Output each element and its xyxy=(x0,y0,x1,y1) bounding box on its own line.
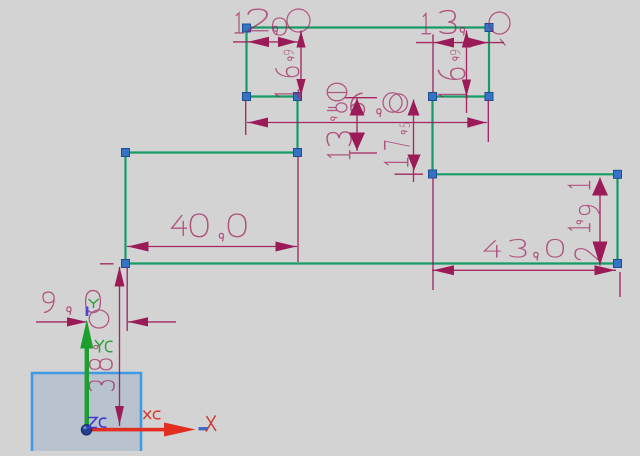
dim 21,9 line xyxy=(599,178,601,266)
dim 16,9 left line xyxy=(300,31,302,101)
text 16,9 left (rotated) xyxy=(284,50,294,55)
small Y mark green xyxy=(89,299,99,308)
dim 56,0 line xyxy=(246,100,489,142)
label _X datum axis xyxy=(199,427,209,430)
X axis red arrow xyxy=(88,428,166,432)
dim 13,1 line xyxy=(345,98,377,153)
label YC xyxy=(95,340,113,353)
dim 43,0 line xyxy=(432,178,620,297)
text 9,0 xyxy=(43,292,54,312)
origin sphere xyxy=(81,425,91,435)
label ZC xyxy=(88,418,107,428)
datum plane square xyxy=(32,373,141,451)
vertex handles xyxy=(122,24,622,268)
text 17,5 (rotated) xyxy=(400,123,410,127)
arrowheads xyxy=(248,37,269,47)
small blue tick xyxy=(86,307,89,317)
dim 16,9 right line xyxy=(466,31,468,114)
text 38,0 (rotated) xyxy=(89,310,109,328)
Y axis green arrow xyxy=(85,346,89,430)
text 13,0 xyxy=(422,14,432,34)
text 21,9 (rotated) xyxy=(569,181,590,190)
text 12,0 xyxy=(235,13,245,33)
text 13,1 (rotated) xyxy=(336,103,347,112)
dim 38,0 line xyxy=(100,264,120,426)
dim 12,0 line xyxy=(233,41,299,43)
dim 9,0 line xyxy=(36,267,176,331)
text 43,0 xyxy=(484,240,501,257)
label XC xyxy=(144,411,161,420)
text 16,9 right (rotated) xyxy=(451,50,461,55)
dim 17,5 line xyxy=(395,100,424,183)
dim 13,0 line xyxy=(416,35,504,94)
text 56,0 (overlapping) xyxy=(327,83,347,101)
dim 40,0 line xyxy=(127,157,298,262)
text 40,0 xyxy=(172,215,187,236)
sketch profile polyline xyxy=(126,28,618,264)
